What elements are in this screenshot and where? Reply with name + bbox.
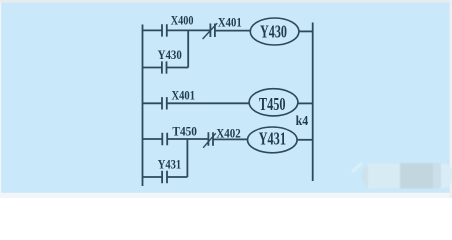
contact X401 (NC) bars [210,24,215,38]
svg-text:Y430: Y430 [260,21,287,41]
right power rail [312,23,314,182]
svg-text:Y431: Y431 [259,128,286,148]
left power rail [142,25,144,187]
wire rung2: contact to coil T450 [167,102,249,104]
svg-text:Y430: Y430 [158,48,182,62]
coil Y431 ellipse [247,127,297,153]
wire rung2 left: rail to contact X401 [143,102,163,104]
wire rung1: coil Y430 to right rail [299,30,313,32]
wire rung1: X400 to X401 [167,29,211,31]
wire rung3: coil Y431 to right rail [297,139,313,141]
svg-text:X401: X401 [172,89,196,103]
svg-text:X400: X400 [171,13,194,27]
coil Y430 ellipse [250,18,299,45]
svg-text:T450: T450 [259,94,286,114]
contact T450 (NO) bars [162,133,167,145]
wire branch2 row: contact Y431 to junction [167,176,187,178]
contact X400 (NO) bars [162,24,167,36]
wire branch1 vertical junction [187,30,189,67]
svg-text:T450: T450 [172,125,197,139]
wire rung1 left: rail to contact X400 [143,29,163,31]
svg-text:Y431: Y431 [158,158,181,172]
wire branch2 vertical junction [186,139,188,177]
contact X402 NC slash [203,133,216,148]
wire branch2 row: rail to contact Y431 [143,176,163,178]
contact X401 rung2 (NO) bars [162,97,167,109]
contact Y430 (NO) bars [162,61,167,73]
coil T450 ellipse [249,89,298,116]
contact X402 (NC) bars [208,132,213,145]
svg-text:X401: X401 [218,16,242,30]
wire branch1 row: rail to contact Y430 [143,67,162,69]
wire rung2: coil T450 to right rail [298,102,313,104]
wire rung3: contact T450 to contact X402 [167,138,208,140]
svg-text:X402: X402 [216,127,240,141]
wire branch1 row: contact Y430 to junction [167,67,189,69]
contact Y431 (NO) bars [162,171,167,183]
wire rung1: X401 to coil Y430 [215,30,251,32]
wire rung3: X402 to coil Y431 [213,138,248,140]
svg-text:k4: k4 [296,114,309,129]
wire rung3 left: rail to contact T450 [143,138,163,140]
contact X401 NC slash [203,23,218,39]
watermark blur patch bottom right [352,163,452,189]
